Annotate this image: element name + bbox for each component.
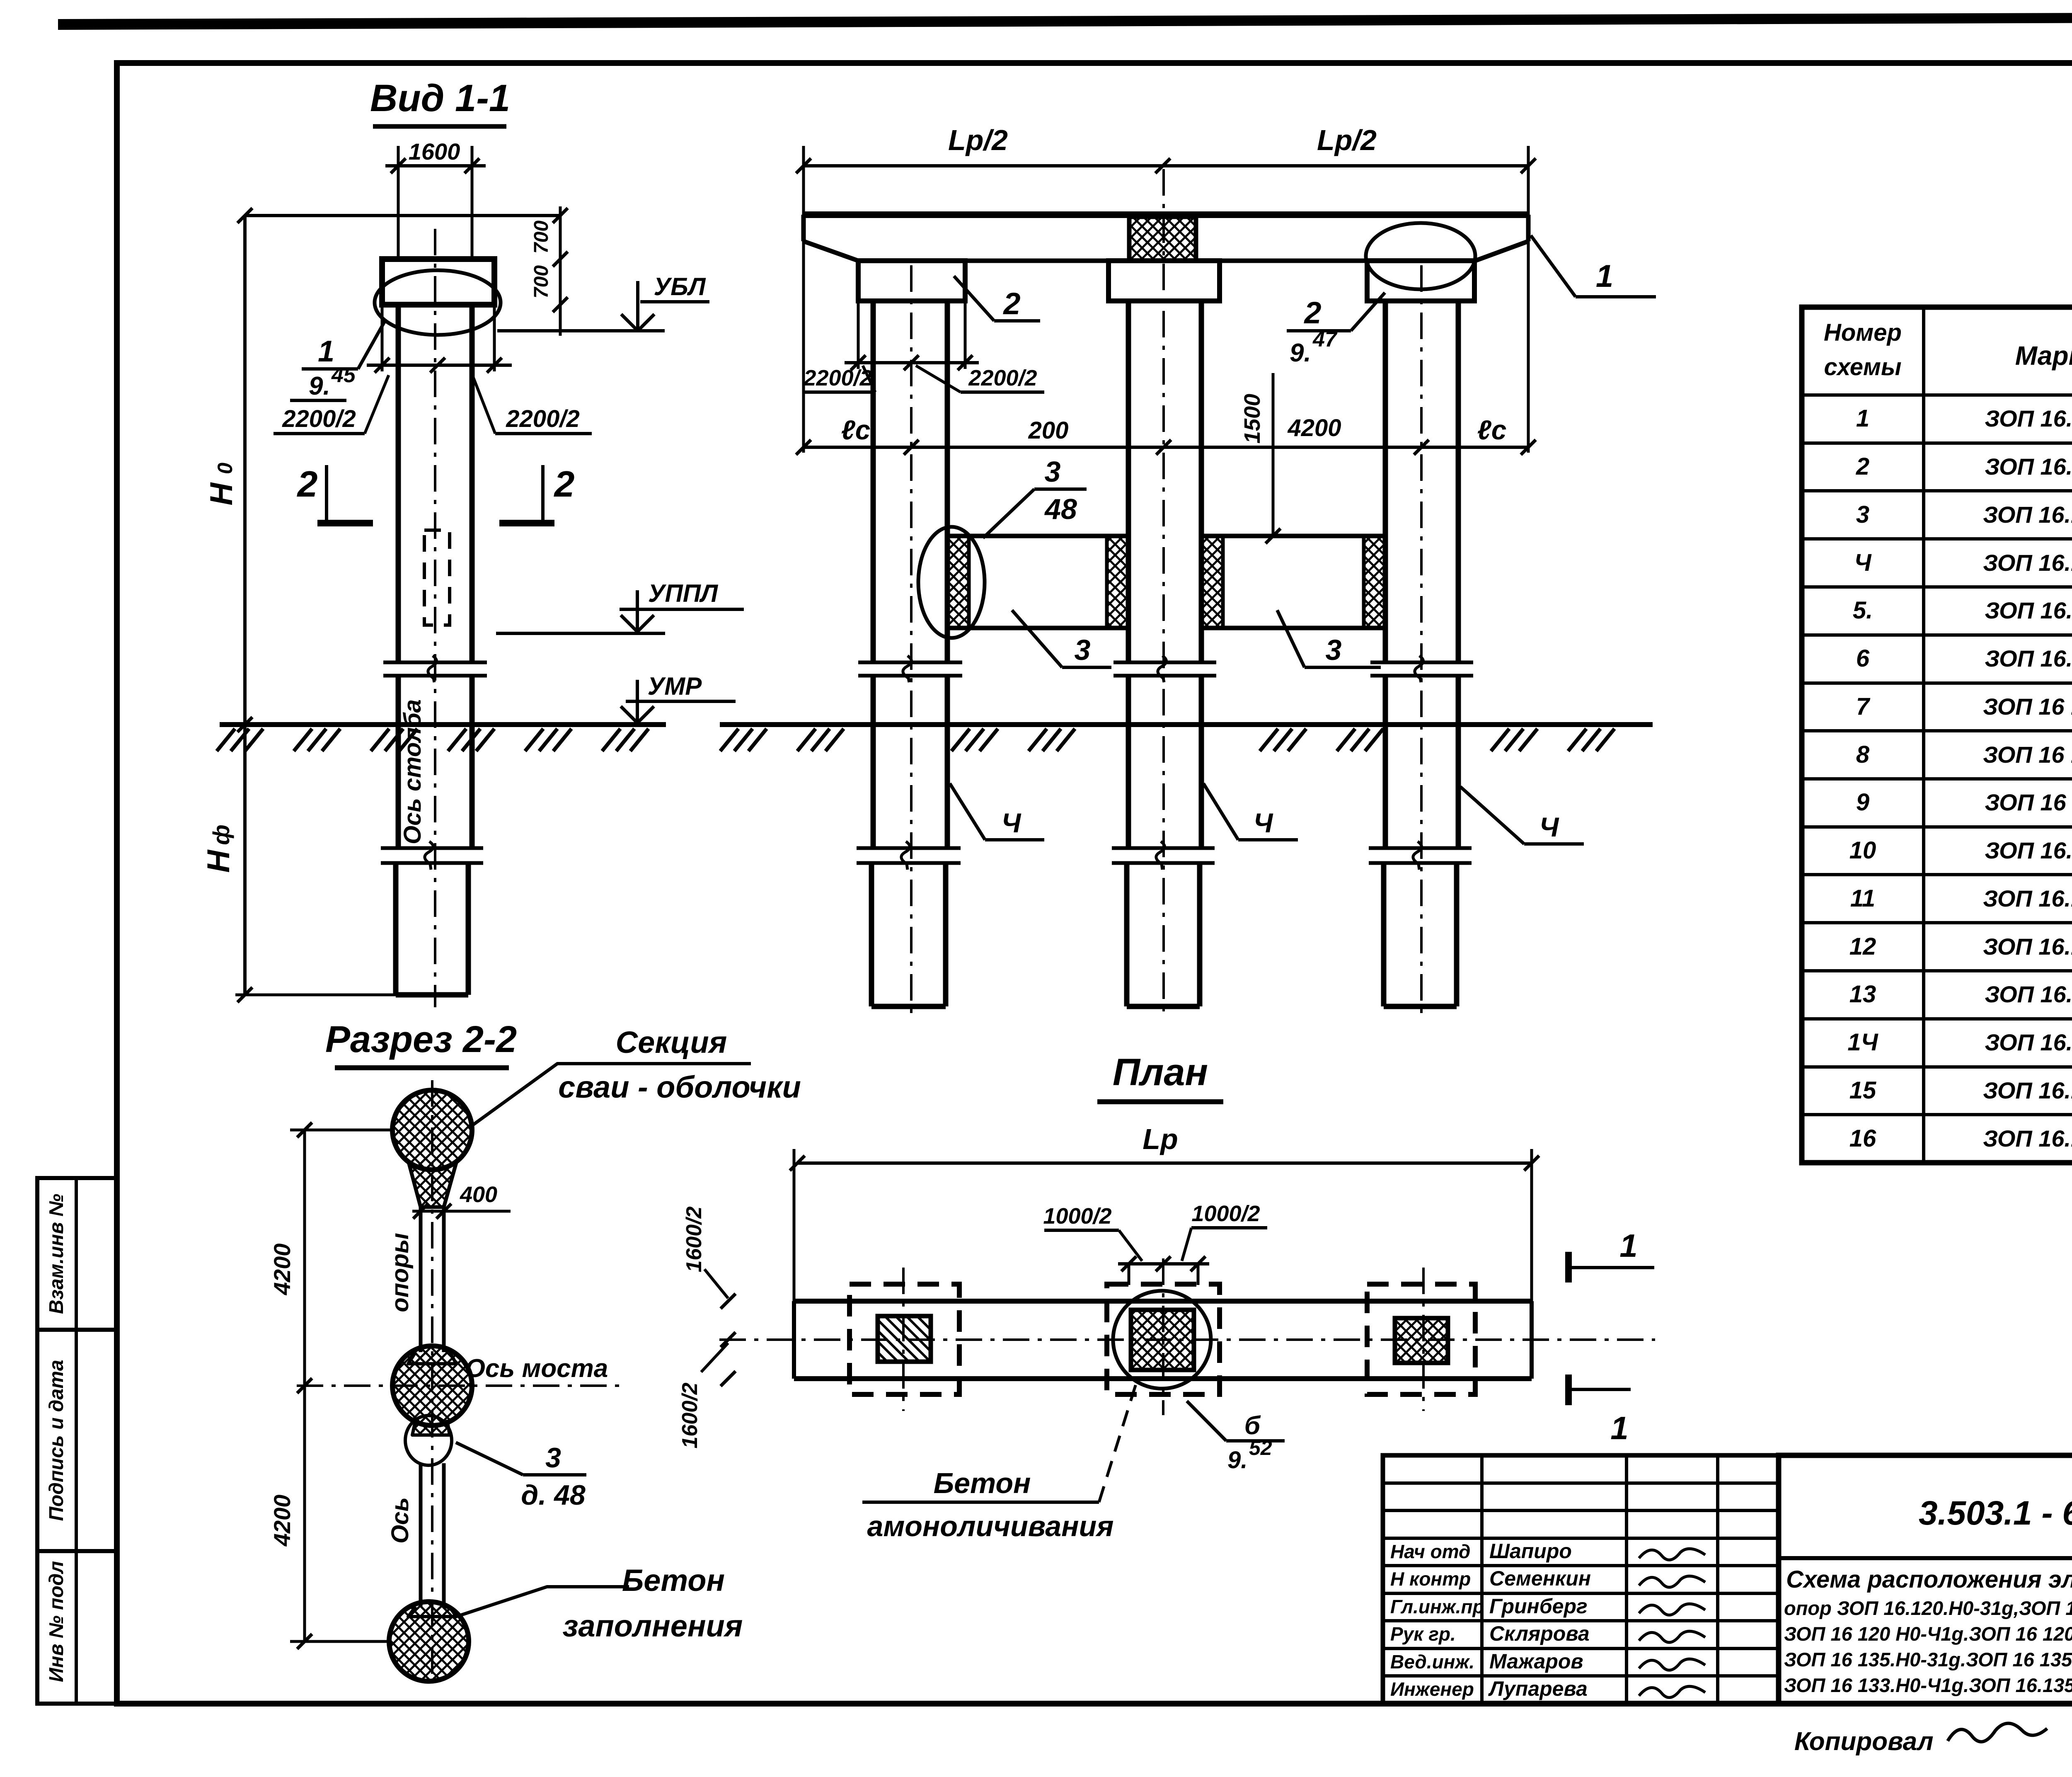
svg-text:13: 13 [1849,981,1876,1008]
svg-text:11: 11 [1850,885,1875,912]
ground hatching [217,729,235,751]
svg-text:ЗОП 16 135.Н0-31g.ЗОП 16 135.Н: ЗОП 16 135.Н0-31g.ЗОП 16 135.Н0-32g. [1784,1649,2072,1670]
section mark 2 right [541,465,545,521]
plan centerline [719,1338,1655,1341]
plan cap left (dashed) [850,1284,959,1394]
svg-text:2200/2: 2200/2 [282,405,356,432]
svg-text:Марка опоры: Марка опоры [2015,341,2072,371]
svg-text:2: 2 [554,463,575,504]
svg-text:9: 9 [1856,789,1869,816]
svg-text:Гл.инж.пр: Гл.инж.пр [1390,1596,1484,1617]
svg-text:УППЛ: УППЛ [648,579,719,607]
section axis vertical [431,1080,433,1679]
svg-text:2200/2: 2200/2 [968,366,1037,390]
svg-text:200: 200 [1028,417,1069,444]
break lines elevation [858,661,962,664]
svg-text:1: 1 [1856,405,1869,432]
dim 700/700 [559,206,562,336]
svg-text:Рук гр.: Рук гр. [1390,1623,1456,1645]
svg-text:0: 0 [213,463,237,474]
svg-text:700: 700 [530,221,552,254]
link column upper [419,1207,423,1352]
column axes dash-dot [910,265,913,1016]
svg-text:45: 45 [331,363,356,387]
svg-text:10: 10 [1849,837,1876,864]
svg-text:ЗОП 16.135.150 – Ч1g: ЗОП 16.135.150 – Ч1g [1983,885,2072,912]
plan strip (ростверк) [794,1299,1532,1304]
svg-text:Разрез 2-2: Разрез 2-2 [325,1019,517,1060]
svg-text:9.: 9. [1227,1447,1247,1474]
svg-text:4200: 4200 [269,1244,295,1296]
svg-text:1000/2: 1000/2 [1191,1201,1260,1226]
detail ellipse on left beam joint [918,527,985,638]
svg-text:1Ч: 1Ч [1847,1029,1878,1056]
svg-text:Инженер: Инженер [1390,1678,1474,1700]
svg-text:52: 52 [1249,1436,1272,1459]
cap dim 2200/2 (elevation) [857,301,860,369]
svg-text:1000/2: 1000/2 [1043,1204,1111,1229]
svg-text:Инв № подл: Инв № подл [46,1561,68,1682]
plan cap right (dashed) [1367,1284,1475,1394]
plan pile center (hatched) [1131,1310,1194,1370]
svg-text:47: 47 [1312,327,1338,352]
joint detail ellipse д48 [412,1420,450,1435]
dim 400 link [412,1210,511,1213]
svg-text:ЗОП 16.135.180 – 32g: ЗОП 16.135.180 – 32g [1985,1029,2072,1055]
plan pile left (hatched) [878,1316,931,1362]
title block signature table [1383,1455,1779,1704]
svg-text:ЗОП 16 135.150 – 31g: ЗОП 16 135.150 – 31g [1985,789,2072,815]
svg-text:2200/2: 2200/2 [803,366,872,390]
plan pile right (hatched) [1395,1318,1448,1363]
svg-text:1500: 1500 [1240,394,1265,444]
svg-text:ℓс: ℓс [1477,415,1507,445]
svg-text:9.: 9. [1290,339,1311,367]
svg-text:схемы: схемы [1824,354,1902,381]
bridge axis line [297,1384,624,1387]
svg-text:опоры: опоры [387,1233,414,1312]
svg-text:ℓс: ℓс [841,415,871,445]
svg-text:План: План [1113,1051,1208,1093]
svg-text:1: 1 [1619,1227,1637,1264]
svg-text:Бетон: Бетон [622,1563,725,1598]
svg-text:7: 7 [1856,693,1871,720]
svg-text:1600: 1600 [409,138,460,165]
svg-text:ЗОП 16.135.180 – Ч1g: ЗОП 16.135.180 – Ч1g [1983,1077,2072,1103]
dim 4200/4200 vertical [303,1130,306,1641]
svg-text:ЗОП 16 120 Н0-Ч1g.ЗОП 16 120 Н: ЗОП 16 120 Н0-Ч1g.ЗОП 16 120 Н0-Ч2g. [1784,1623,2072,1645]
svg-text:12: 12 [1849,933,1876,960]
svg-text:Подпись и дата: Подпись и дата [46,1360,68,1521]
plan pile axes [902,1268,905,1411]
svg-text:Ось столба: Ось столба [399,699,426,844]
svg-text:Схема расположения элементов: Схема расположения элементов [1786,1566,2072,1593]
svg-text:УМР: УМР [648,672,702,700]
svg-text:Lр/2: Lр/2 [948,124,1008,156]
link column lower [419,1463,423,1607]
svg-text:2200/2: 2200/2 [506,405,579,432]
svg-text:1: 1 [1596,259,1613,294]
neck below top circle [408,1160,457,1207]
svg-text:ЗОП 16.120 150 – Ч1g: ЗОП 16.120 150 – Ч1g [1983,502,2072,528]
cross beam right [1201,534,1385,538]
svg-text:сваи - оболочки: сваи - оболочки [558,1070,801,1104]
column axis dash-dot [434,229,436,1007]
svg-text:400: 400 [460,1182,497,1207]
svg-text:Вид 1-1: Вид 1-1 [370,77,510,119]
svg-text:Секция: Секция [616,1025,727,1059]
pile bottom extension line [235,994,396,996]
svg-text:Н: Н [204,482,239,505]
column (свая-оболочка) Vid 1-1 [396,305,401,662]
svg-text:ЗОП 16.120.180 – 31g: ЗОП 16.120.180 – 31g [1985,597,2072,623]
svg-text:ЗОП 16.120.180 – 32g: ЗОП 16.120.180 – 32g [1985,645,2072,672]
svg-text:д. 48: д. 48 [521,1479,586,1511]
svg-text:Вед.инж.: Вед.инж. [1390,1651,1474,1673]
svg-text:8: 8 [1856,741,1870,768]
svg-text:Ось: Ось [387,1497,414,1544]
neck above middle circle [408,1352,456,1364]
svg-text:2: 2 [297,463,318,504]
svg-text:2: 2 [1002,286,1020,321]
svg-text:1600/2: 1600/2 [678,1382,702,1448]
svg-text:ЗОП 16 120.180 – Ч2g: ЗОП 16 120.180 – Ч2g [1983,742,2072,768]
svg-text:Шапиро: Шапиро [1489,1539,1572,1563]
svg-text:Ч: Ч [1854,549,1872,576]
stamp column boxes [37,1178,117,1704]
middle hatched circle [392,1346,472,1425]
svg-text:опор ЗОП 16.120.Н0-31g,ЗОП 16: опор ЗОП 16.120.Н0-31g,ЗОП 16 120.Н0-32g… [1784,1597,2072,1619]
shell pile section top (hatched circle) [392,1090,472,1170]
svg-text:Семенкин: Семенкин [1489,1567,1591,1590]
svg-text:Мажаров: Мажаров [1489,1650,1583,1673]
svg-text:Н: Н [201,849,236,873]
svg-text:Ч: Ч [1254,807,1273,838]
svg-text:ф: ф [208,824,234,845]
dim 1500 [1272,373,1275,536]
svg-text:Взам.инв №: Взам.инв № [46,1194,68,1314]
svg-text:3: 3 [1045,456,1061,488]
dim 1600 [385,164,486,167]
svg-text:Склярова: Склярова [1489,1622,1590,1645]
svg-text:ЗОП 16.135.150 – 32g: ЗОП 16.135.150 – 32g [1985,837,2072,863]
svg-text:3: 3 [545,1442,561,1474]
svg-text:1600/2: 1600/2 [682,1206,706,1272]
dim Lp/2 + Lp/2 [804,164,1528,167]
svg-text:ЗОП 16 133.Н0-Ч1g.ЗОП 16.135.Н: ЗОП 16 133.Н0-Ч1g.ЗОП 16.135.Н0-Ч2g [1784,1674,2072,1696]
section mark 1 top [1565,1252,1572,1282]
cap-bottom dim 2200/2+2200/2 [381,305,384,371]
svg-text:700: 700 [530,265,552,298]
dim lc 200 4200 lc [804,446,1528,449]
svg-text:ЗОП 16.135.150 – Ч2g: ЗОП 16.135.150 – Ч2g [1983,933,2072,960]
bearing ellipse [375,270,501,335]
svg-text:6: 6 [1856,645,1870,672]
svg-text:3.503.1 - 69.1 38: 3.503.1 - 69.1 38 [1919,1494,2072,1532]
deck slab [804,211,1528,218]
svg-text:ЗОП 16 120.180 – Ч1g: ЗОП 16 120.180 – Ч1g [1983,693,2072,720]
svg-text:Ч: Ч [1539,812,1559,842]
columns elevation [871,301,876,662]
svg-text:Ч: Ч [1002,807,1021,838]
svg-text:4200: 4200 [1287,415,1341,441]
svg-text:3: 3 [1326,634,1342,666]
neck above bottom circle [408,1607,456,1617]
schedule table [1802,307,2072,1163]
sheet top edge [58,12,2072,30]
svg-text:Lр: Lр [1143,1123,1178,1155]
svg-text:Нач отд: Нач отд [1390,1541,1470,1562]
svg-text:Lр/2: Lр/2 [1317,124,1377,156]
deck joint hatched block [1129,217,1196,261]
svg-text:ЗОП 16.135.180 – Ч2g: ЗОП 16.135.180 – Ч2g [1983,1125,2072,1152]
svg-text:1: 1 [1610,1410,1628,1446]
pier cap left [858,261,965,301]
svg-text:Бетон: Бетон [934,1467,1031,1499]
svg-text:Копировал: Копировал [1794,1727,1934,1756]
title block main [1779,1455,2072,1704]
svg-text:Гринберг: Гринберг [1489,1595,1588,1618]
section mark 1 bottom [1565,1375,1572,1405]
dim Lp (plan) [797,1161,1532,1165]
break lines Vid 1-1 [383,661,487,664]
svg-text:9.: 9. [309,372,330,400]
svg-text:УБЛ: УБЛ [654,273,706,301]
section mark 2 left [325,465,328,521]
svg-text:2: 2 [1303,296,1321,330]
svg-text:Номер: Номер [1824,319,1902,346]
inner void dashed rect [424,530,450,625]
svg-text:Ось моста: Ось моста [465,1354,608,1383]
svg-text:3: 3 [1075,634,1091,666]
bearing ellipse right cap [1366,223,1475,289]
pier cap right [1367,261,1474,301]
svg-text:48: 48 [1044,493,1077,525]
H0 top reference line [245,214,560,217]
pier cap center [1109,261,1220,301]
svg-text:16: 16 [1849,1125,1876,1152]
svg-text:ЗОП 16.120.150 – 31g: ЗОП 16.120.150 – 31g [1985,405,2072,432]
svg-text:ЗОП 16.135.180 – 31g: ЗОП 16.135.180 – 31g [1985,981,2072,1007]
svg-text:ЗОП 16.120.150 – Ч2g: ЗОП 16.120.150 – Ч2g [1983,550,2072,576]
cross beam left [947,534,1128,538]
svg-text:15: 15 [1849,1077,1876,1104]
H0 / Hф dimension line [243,216,247,995]
plan shell circle center [1113,1291,1211,1389]
pile cap (ригель) Vid 1-1 [382,259,494,305]
svg-text:5.: 5. [1853,597,1873,624]
svg-text:Н контр: Н контр [1390,1568,1471,1590]
bottom hatched circle [389,1602,469,1681]
plan cap center (dashed) [1107,1284,1220,1394]
svg-text:Лупарева: Лупарева [1488,1677,1588,1700]
svg-text:3: 3 [1856,501,1869,528]
ground line [220,722,666,727]
svg-text:заполнения: заполнения [563,1609,743,1643]
svg-text:4200: 4200 [269,1495,295,1547]
svg-text:амоноличивания: амоноличивания [867,1510,1114,1542]
svg-text:2: 2 [1856,453,1869,480]
svg-text:ЗОП 16.120.150 – 32g: ЗОП 16.120.150 – 32g [1985,453,2072,480]
svg-text:б: б [1244,1411,1261,1440]
